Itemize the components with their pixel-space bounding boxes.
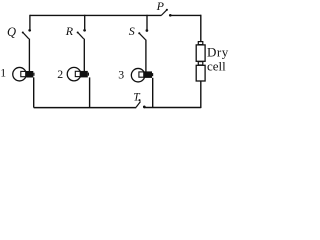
wire: branch 1 vertical bottom (lamp to bottom bus)	[33, 77, 35, 107]
wire: bottom bus left segment (branch1 corner to switch T)	[34, 107, 137, 109]
battery cell 2 cap	[198, 62, 203, 65]
lamp 1 base (filled)	[26, 71, 33, 78]
switch T blade knob	[138, 99, 140, 101]
switch Q contact dot	[28, 29, 31, 32]
switch Q blade	[23, 33, 28, 39]
wire: branch 2 vertical bottom (lamp to bottom bus)	[89, 77, 91, 107]
switch P blade knob	[166, 9, 168, 11]
wire: right vertical bottom (battery to bottom bus)	[200, 81, 202, 108]
wire: top bus right segment (P to battery corner)	[170, 14, 201, 16]
switch R blade	[78, 33, 83, 39]
switch S contact dot	[146, 29, 149, 32]
wire: branch 2 vertical top (bus to switch R)	[84, 15, 86, 29]
wire: bottom bus right segment (T to battery corner)	[144, 107, 202, 109]
switch S blade knob	[138, 32, 140, 34]
svg-text:Dry: Dry	[207, 45, 229, 60]
lamp 2 inner square	[75, 71, 80, 76]
battery cell 1 body	[196, 45, 205, 61]
wire: branch 2 vertical (switch R to lamp 2)	[83, 39, 85, 72]
wire: branch 3 vertical bottom (lamp to bottom bus)	[152, 78, 154, 108]
wire: branch 3 vertical top (bus to switch S)	[146, 15, 148, 30]
lamp 3 inner square	[139, 72, 144, 77]
svg-text:S: S	[129, 24, 135, 38]
lamp 3 base tip	[152, 73, 153, 76]
wire: branch 1 vertical (switch Q to lamp 1)	[28, 39, 30, 72]
svg-text:Q: Q	[7, 25, 16, 39]
wire: right vertical (top corner to battery)	[200, 15, 202, 42]
switch P blade	[161, 10, 166, 15]
lamp 1 inner square	[21, 71, 26, 76]
lamp 1 base tip	[33, 73, 34, 76]
lamp 1 circle	[13, 67, 27, 81]
svg-text:R: R	[65, 24, 74, 38]
svg-text:cell: cell	[207, 58, 226, 73]
lamp 2 circle	[67, 67, 81, 81]
switch T contact dot	[143, 106, 146, 109]
lamp 3 circle	[131, 68, 145, 82]
wire: top bus left segment (branch1 corner to P blade)	[30, 14, 161, 16]
switch T blade	[136, 102, 141, 108]
lamp 3 base (filled)	[143, 71, 152, 78]
lamp 2 base tip	[88, 73, 89, 76]
switch P contact dot	[169, 14, 172, 17]
svg-text:2: 2	[57, 67, 63, 81]
svg-text:3: 3	[118, 67, 124, 81]
svg-text:P: P	[156, 0, 165, 13]
wire: branch 3 vertical (switch S to lamp 3)	[145, 40, 147, 72]
switch R contact dot	[83, 29, 86, 32]
switch R blade knob	[77, 31, 79, 33]
wire: branch 1 vertical top (bus to switch Q)	[29, 15, 31, 29]
switch S blade	[140, 34, 146, 40]
switch Q blade knob	[22, 31, 24, 33]
battery cell 2 body	[196, 65, 205, 81]
lamp 2 base (filled)	[81, 71, 88, 78]
svg-text:1: 1	[0, 66, 6, 80]
battery cell 1 cap	[198, 42, 203, 45]
